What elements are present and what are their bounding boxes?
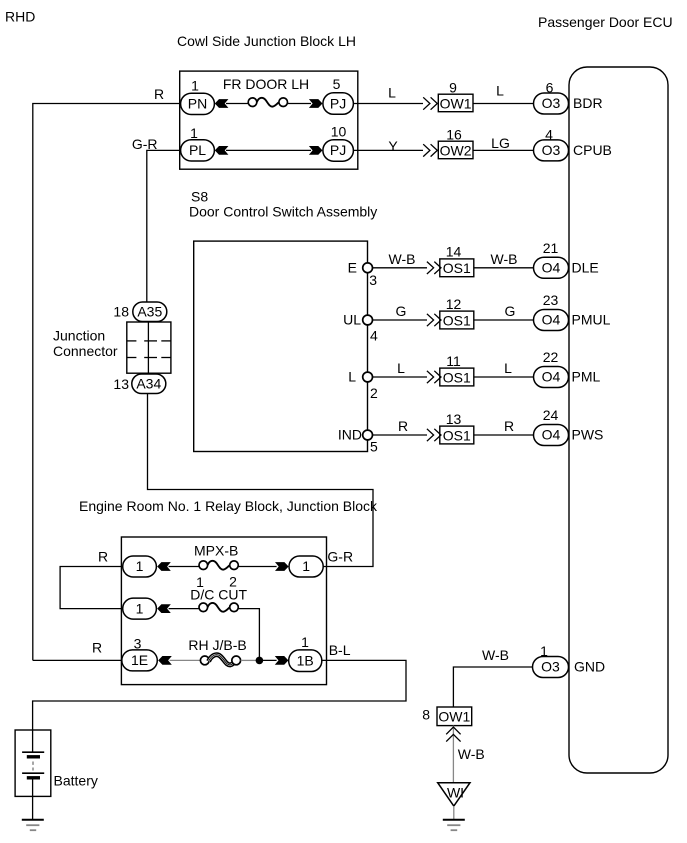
wire B-L from 1B to battery	[33, 660, 406, 752]
ground battery	[22, 819, 44, 821]
connector O4 PML	[534, 367, 569, 388]
connector O3 BDR	[534, 93, 569, 114]
svg-text:E: E	[348, 259, 357, 275]
cowl side junction block box	[180, 71, 358, 169]
connector O3 CPUB	[534, 140, 569, 161]
wire Y from PJ to OW2	[353, 149, 423, 151]
svg-text:S8: S8	[191, 189, 208, 205]
connector O4 PWS	[534, 425, 569, 446]
wire from fuse down to junction on row 3	[238, 609, 259, 661]
connector 1 left	[123, 598, 157, 619]
svg-text:1: 1	[302, 558, 310, 574]
svg-text:PJ: PJ	[330, 142, 346, 158]
svg-text:O4: O4	[542, 427, 561, 443]
svg-text:12: 12	[446, 296, 462, 312]
ground WI triangle	[438, 783, 470, 806]
chevrons into OW2	[423, 144, 430, 156]
connector O3 GND	[533, 657, 569, 678]
svg-text:OW1: OW1	[438, 709, 470, 725]
chevrons	[427, 429, 434, 441]
connector 1B	[289, 650, 322, 672]
svg-text:PL: PL	[189, 142, 206, 158]
wire L to O3	[473, 103, 534, 105]
wire	[169, 566, 199, 568]
svg-text:O4: O4	[542, 369, 561, 385]
wire	[288, 103, 312, 105]
svg-text:3: 3	[134, 635, 142, 651]
svg-text:G-R: G-R	[327, 549, 353, 565]
svg-text:W-B: W-B	[458, 746, 485, 762]
svg-text:L: L	[348, 369, 356, 385]
chevrons into OW1	[423, 97, 430, 109]
svg-text:O3: O3	[542, 95, 561, 111]
grey wire	[170, 659, 201, 661]
svg-text:16: 16	[446, 127, 462, 143]
wire L from PJ to OW1	[353, 103, 423, 105]
svg-text:R: R	[98, 549, 108, 565]
svg-text:G: G	[396, 303, 407, 319]
svg-text:22: 22	[543, 349, 559, 365]
connector A35	[133, 302, 167, 322]
connector 1 left	[123, 556, 157, 577]
svg-text:1E: 1E	[131, 652, 148, 668]
svg-text:OS1: OS1	[443, 260, 471, 276]
wire W-B GND to OW1	[453, 667, 532, 707]
svg-text:18: 18	[113, 303, 129, 319]
chevrons	[427, 371, 434, 383]
svg-text:RH J/B-B: RH J/B-B	[188, 637, 246, 653]
battery	[15, 730, 51, 796]
connector OS1 UL	[440, 311, 474, 329]
wire	[226, 103, 248, 105]
svg-text:CPUB: CPUB	[573, 142, 612, 158]
wire W-B to O4	[474, 267, 534, 269]
svg-text:Door Control Switch Assembly: Door Control Switch Assembly	[189, 203, 377, 219]
svg-text:O3: O3	[541, 659, 560, 675]
svg-text:1: 1	[191, 78, 199, 94]
arrow into PN	[215, 99, 229, 108]
svg-text:PML: PML	[572, 369, 601, 385]
svg-text:OS1: OS1	[443, 427, 471, 443]
fusible link RH J/B-B	[200, 656, 209, 665]
svg-text:A34: A34	[136, 375, 161, 391]
arrow into 1B	[275, 656, 289, 665]
battery dashed mid	[32, 762, 34, 771]
svg-text:MPX-B: MPX-B	[194, 542, 238, 558]
svg-text:Connector: Connector	[53, 343, 118, 359]
svg-text:Junction: Junction	[53, 328, 105, 344]
connector OW1	[438, 94, 473, 112]
svg-text:R: R	[504, 418, 514, 434]
svg-text:4: 4	[370, 328, 378, 344]
svg-text:RHD: RHD	[5, 8, 35, 24]
grey wire below OW1	[452, 726, 454, 783]
svg-text:G-R: G-R	[132, 136, 158, 152]
connector 1 right	[289, 556, 323, 577]
svg-text:Y: Y	[388, 138, 398, 154]
wire E row	[373, 267, 427, 269]
svg-text:2: 2	[370, 385, 378, 401]
svg-text:PMUL: PMUL	[572, 312, 611, 328]
svg-text:UL: UL	[343, 312, 361, 328]
svg-text:23: 23	[543, 292, 559, 308]
svg-text:1B: 1B	[297, 652, 314, 668]
battery plate thick	[27, 755, 40, 758]
fuse D/C CUT	[199, 603, 208, 612]
svg-text:8: 8	[422, 707, 430, 723]
wire	[238, 566, 276, 568]
wire	[259, 659, 276, 661]
svg-text:B-L: B-L	[329, 642, 351, 658]
svg-text:1: 1	[190, 125, 198, 141]
svg-text:1: 1	[136, 558, 144, 574]
svg-text:L: L	[397, 360, 405, 376]
svg-text:3: 3	[369, 272, 377, 288]
svg-text:24: 24	[543, 407, 559, 423]
left U wire joining MPX-B and D/C CUT rows	[60, 567, 121, 609]
chevrons	[427, 314, 434, 326]
svg-text:13: 13	[446, 411, 462, 427]
svg-text:11: 11	[446, 353, 461, 369]
battery plate thick 2	[27, 776, 40, 779]
svg-text:FR DOOR LH: FR DOOR LH	[223, 76, 309, 92]
svg-text:R: R	[398, 418, 408, 434]
svg-text:21: 21	[543, 240, 559, 256]
battery plate + long	[22, 751, 44, 753]
svg-text:OS1: OS1	[443, 369, 471, 385]
grey wire	[241, 659, 256, 661]
svg-text:G: G	[505, 303, 516, 319]
door control switch assembly box	[194, 241, 368, 451]
svg-text:OW1: OW1	[440, 96, 472, 112]
wire	[169, 608, 199, 610]
pin circle L	[363, 372, 373, 382]
wire R from battery line to PN	[33, 104, 180, 661]
svg-text:13: 13	[113, 376, 129, 392]
svg-text:LG: LG	[491, 135, 510, 151]
svg-text:Cowl Side Junction Block LH: Cowl Side Junction Block LH	[177, 33, 356, 49]
connector OS1 E	[440, 259, 474, 277]
connector O4 PMUL	[534, 310, 569, 331]
engine room relay block box	[121, 537, 326, 685]
junction dot	[256, 657, 264, 665]
connector O4 DLE	[534, 257, 569, 278]
fuse FR DOOR LH	[248, 98, 257, 107]
svg-text:Engine Room No. 1 Relay Block,: Engine Room No. 1 Relay Block, Junction …	[79, 498, 378, 514]
svg-text:PN: PN	[188, 95, 207, 111]
connector OS1 IND	[440, 426, 474, 444]
svg-text:OS1: OS1	[443, 312, 471, 328]
wire	[226, 149, 311, 151]
ground WI	[443, 819, 465, 821]
junction connector box	[127, 322, 171, 373]
pin circle E	[363, 263, 373, 273]
chevrons up into OW1	[446, 727, 460, 734]
svg-text:5: 5	[370, 439, 378, 455]
connector PL	[181, 140, 215, 161]
svg-text:OW2: OW2	[440, 143, 472, 159]
battery plate + long 2	[22, 772, 44, 774]
svg-text:D/C CUT: D/C CUT	[190, 587, 247, 603]
svg-text:O3: O3	[542, 142, 561, 158]
svg-text:GND: GND	[574, 659, 605, 675]
svg-text:W-B: W-B	[389, 251, 416, 267]
svg-text:WI: WI	[447, 785, 464, 801]
wire R from left line to 1E	[33, 659, 122, 661]
svg-text:PJ: PJ	[330, 95, 346, 111]
arrow into PL	[215, 146, 229, 155]
svg-text:10: 10	[331, 124, 347, 140]
arrow	[157, 604, 171, 613]
svg-text:W-B: W-B	[491, 251, 518, 267]
svg-text:DLE: DLE	[572, 260, 599, 276]
svg-text:IND: IND	[338, 427, 362, 443]
svg-text:R: R	[92, 640, 102, 656]
svg-text:L: L	[496, 83, 504, 99]
svg-text:L: L	[388, 85, 396, 101]
svg-text:9: 9	[449, 80, 457, 96]
svg-text:BDR: BDR	[573, 95, 603, 111]
pin circle UL	[363, 315, 373, 325]
wire LG to O3	[473, 149, 534, 151]
connector PN	[181, 93, 215, 114]
wire from A34 down to relay block right oval	[148, 394, 374, 567]
pin circle IND	[363, 430, 373, 440]
svg-text:L: L	[504, 360, 512, 376]
arrow into PJ	[309, 99, 323, 108]
chevrons into OS1	[427, 262, 434, 274]
connector A34	[132, 374, 166, 394]
arrow into right 1	[275, 562, 289, 571]
svg-text:R: R	[154, 86, 164, 102]
svg-text:O4: O4	[542, 312, 561, 328]
arrow into PJ row2	[309, 146, 323, 155]
arrow into 1	[157, 562, 171, 571]
fuse MPX-B	[199, 561, 208, 570]
wire G-R from PL to junction connector	[147, 150, 180, 302]
svg-text:1: 1	[301, 634, 309, 650]
connector PJ pin 10	[323, 140, 354, 162]
svg-text:14: 14	[446, 244, 462, 260]
connector OW2	[438, 141, 473, 159]
svg-text:Battery: Battery	[54, 773, 98, 789]
connector OW1 bottom	[437, 707, 472, 726]
connector 1E	[122, 650, 158, 671]
grey wire triangle to ground	[453, 806, 455, 820]
svg-text:O4: O4	[542, 260, 561, 276]
Passenger Door ECU body	[569, 67, 668, 773]
svg-text:1: 1	[136, 600, 144, 616]
svg-text:Passenger Door ECU: Passenger Door ECU	[538, 14, 673, 30]
arrow into 1E	[158, 656, 172, 665]
svg-text:5: 5	[333, 76, 341, 92]
wire battery to ground	[32, 778, 34, 820]
connector OS1 L	[440, 368, 474, 386]
svg-text:PWS: PWS	[572, 427, 604, 443]
svg-text:W-B: W-B	[482, 647, 509, 663]
connector PJ pin 5	[323, 93, 354, 115]
svg-text:A35: A35	[137, 303, 162, 319]
